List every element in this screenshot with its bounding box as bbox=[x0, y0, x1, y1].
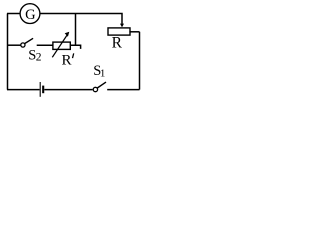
arrowhead of R' diagonal bbox=[65, 32, 70, 37]
wire: middle branch between S2 and R' bbox=[37, 44, 53, 46]
battery long plate bbox=[39, 82, 41, 97]
svg-text:1: 1 bbox=[100, 68, 106, 80]
rheostat R' diagonal arrow shaft bbox=[52, 35, 67, 57]
svg-text:R: R bbox=[62, 53, 72, 69]
wire: riser joining middle branch to top wire bbox=[75, 14, 77, 46]
switch S1 pivot circle bbox=[93, 87, 97, 91]
arrowhead of R wiper bbox=[120, 24, 124, 28]
switch S2 pivot circle bbox=[21, 43, 25, 47]
wire: bottom right segment bbox=[107, 89, 139, 91]
wire: top right segment and R wiper arrow shaft bbox=[40, 14, 122, 24]
switch S2 lever bbox=[25, 38, 33, 43]
wire: middle branch left segment bbox=[7, 44, 21, 46]
wire: middle branch between R' and riser bbox=[70, 45, 80, 49]
wire: right edge bbox=[139, 32, 141, 90]
prime mark of R label bbox=[73, 53, 74, 58]
galvanometer G circle bbox=[20, 4, 40, 24]
svg-text:2: 2 bbox=[36, 52, 42, 64]
battery short thick plate bbox=[42, 86, 44, 94]
wire: left edge bbox=[7, 14, 9, 90]
svg-text:G: G bbox=[25, 7, 36, 23]
switch S1 lever bbox=[97, 82, 106, 88]
resistor R box bbox=[108, 28, 130, 35]
wire: bottom between battery and S1 bbox=[44, 89, 92, 91]
rheostat R' box bbox=[53, 42, 70, 49]
svg-text:R: R bbox=[112, 35, 123, 52]
wire: top left segment bbox=[7, 13, 20, 15]
wire: bottom left segment bbox=[7, 89, 40, 91]
wire: R right end to right edge bbox=[129, 31, 139, 33]
